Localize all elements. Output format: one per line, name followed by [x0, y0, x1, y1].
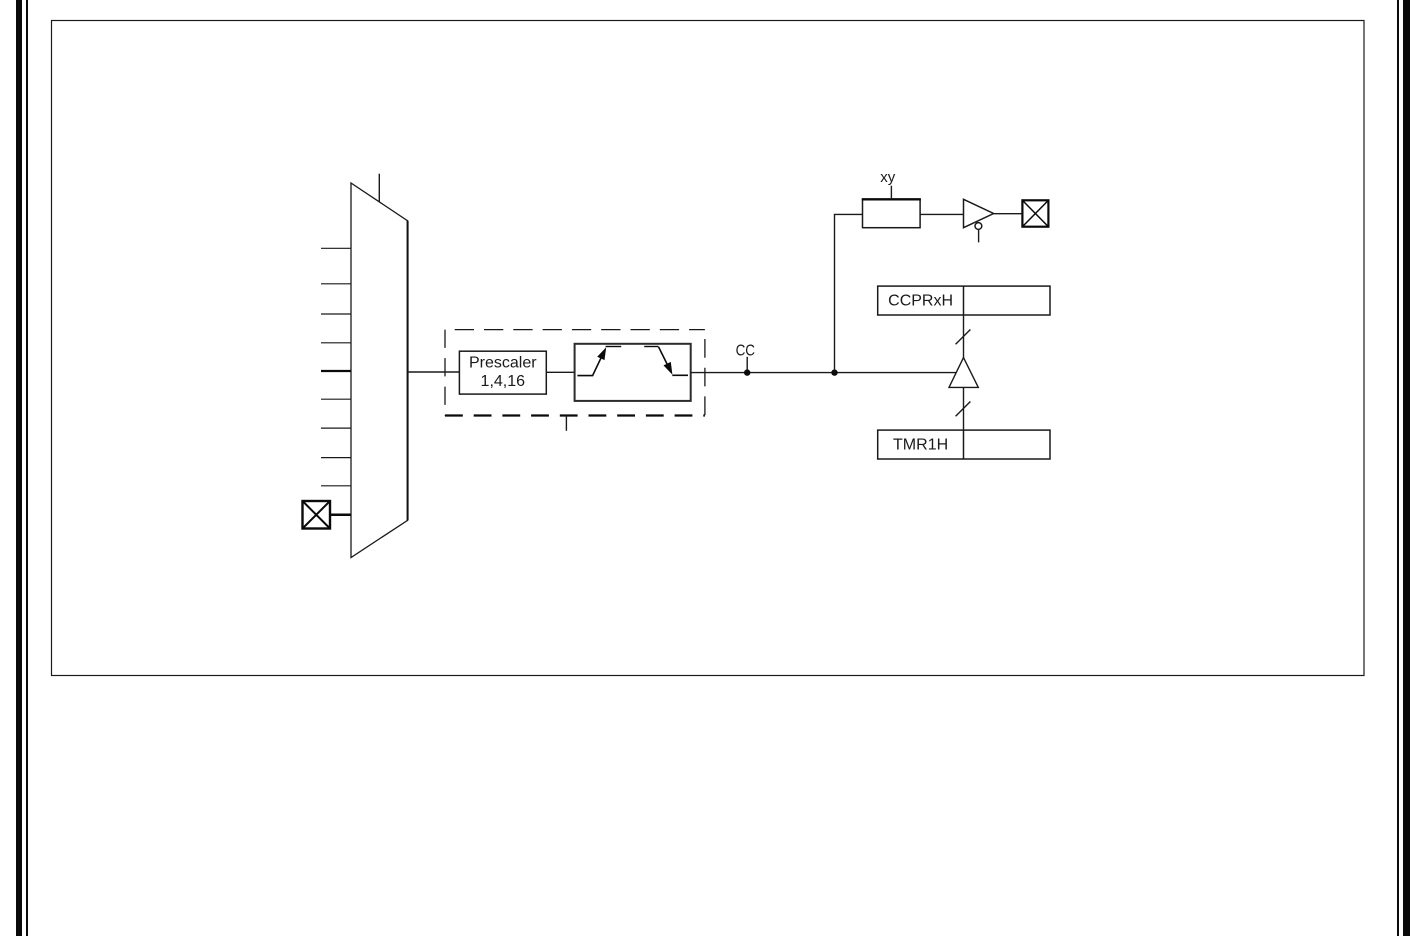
wire: bus CCPRxH to read buffer [963, 315, 965, 359]
wire: mux input stub 5 (selected) [321, 370, 351, 372]
wire: mux input stub 8 [321, 457, 351, 459]
multiplexer U1 [351, 183, 408, 558]
node: branch junction dot [831, 369, 837, 375]
wire: bus buffer to TMR1H [963, 387, 965, 430]
wire: edge detect output (net CC) to read buffer [691, 372, 957, 374]
edge detect U3 [575, 344, 691, 401]
wire: stub below dashed box [565, 416, 567, 431]
wire: mux select line [378, 174, 380, 202]
register CCPRxH [878, 286, 1050, 315]
svg-text:CC: CC [736, 343, 755, 360]
svg-text:TMR1H: TMR1H [893, 437, 948, 454]
wire: xy label stub [890, 186, 892, 200]
bus width slash (upper) [956, 330, 971, 345]
pin P1 (input pad) [303, 501, 331, 529]
prescaler U2 [459, 351, 546, 394]
wire: mux input stub 3 [321, 313, 351, 315]
wire: mux input stub 7 [321, 427, 351, 429]
pin P2 (output pad) [1022, 200, 1048, 226]
wire: mux input stub 4 [321, 342, 351, 344]
wire: mux input stub 1 [321, 247, 351, 249]
wire: CC label stub [746, 357, 748, 371]
bus width slash (lower) [956, 402, 971, 417]
svg-text:CCPRxH: CCPRxH [888, 293, 953, 310]
buffer U6 (capture transfer, points up) [949, 358, 978, 388]
node: CC junction dot [744, 369, 750, 375]
svg-text:Prescaler: Prescaler [469, 354, 537, 371]
dashed box: prescaler / edge detect group [445, 330, 705, 416]
wire: mux input stub 2 [321, 283, 351, 285]
wire: prescaler to edge detect [546, 371, 574, 373]
register U4 (capture enable latch), label xy [862, 169, 921, 228]
wire: mux output to prescaler [408, 371, 460, 373]
wire: pin P1 to mux [331, 513, 351, 516]
wire: mux input stub 9 [321, 485, 351, 487]
wire: buffer U5 to pin P2 [994, 213, 1022, 215]
wire: junction up to capture register [835, 214, 863, 372]
register TMR1H [878, 430, 1050, 459]
wire: register U4 to buffer U5 [920, 213, 963, 215]
buffer U5 (tri-state, active-low enable) [964, 199, 994, 242]
svg-text:xy: xy [880, 169, 896, 186]
svg-text:1,4,16: 1,4,16 [481, 373, 526, 390]
wire: mux input stub 6 [321, 398, 351, 400]
